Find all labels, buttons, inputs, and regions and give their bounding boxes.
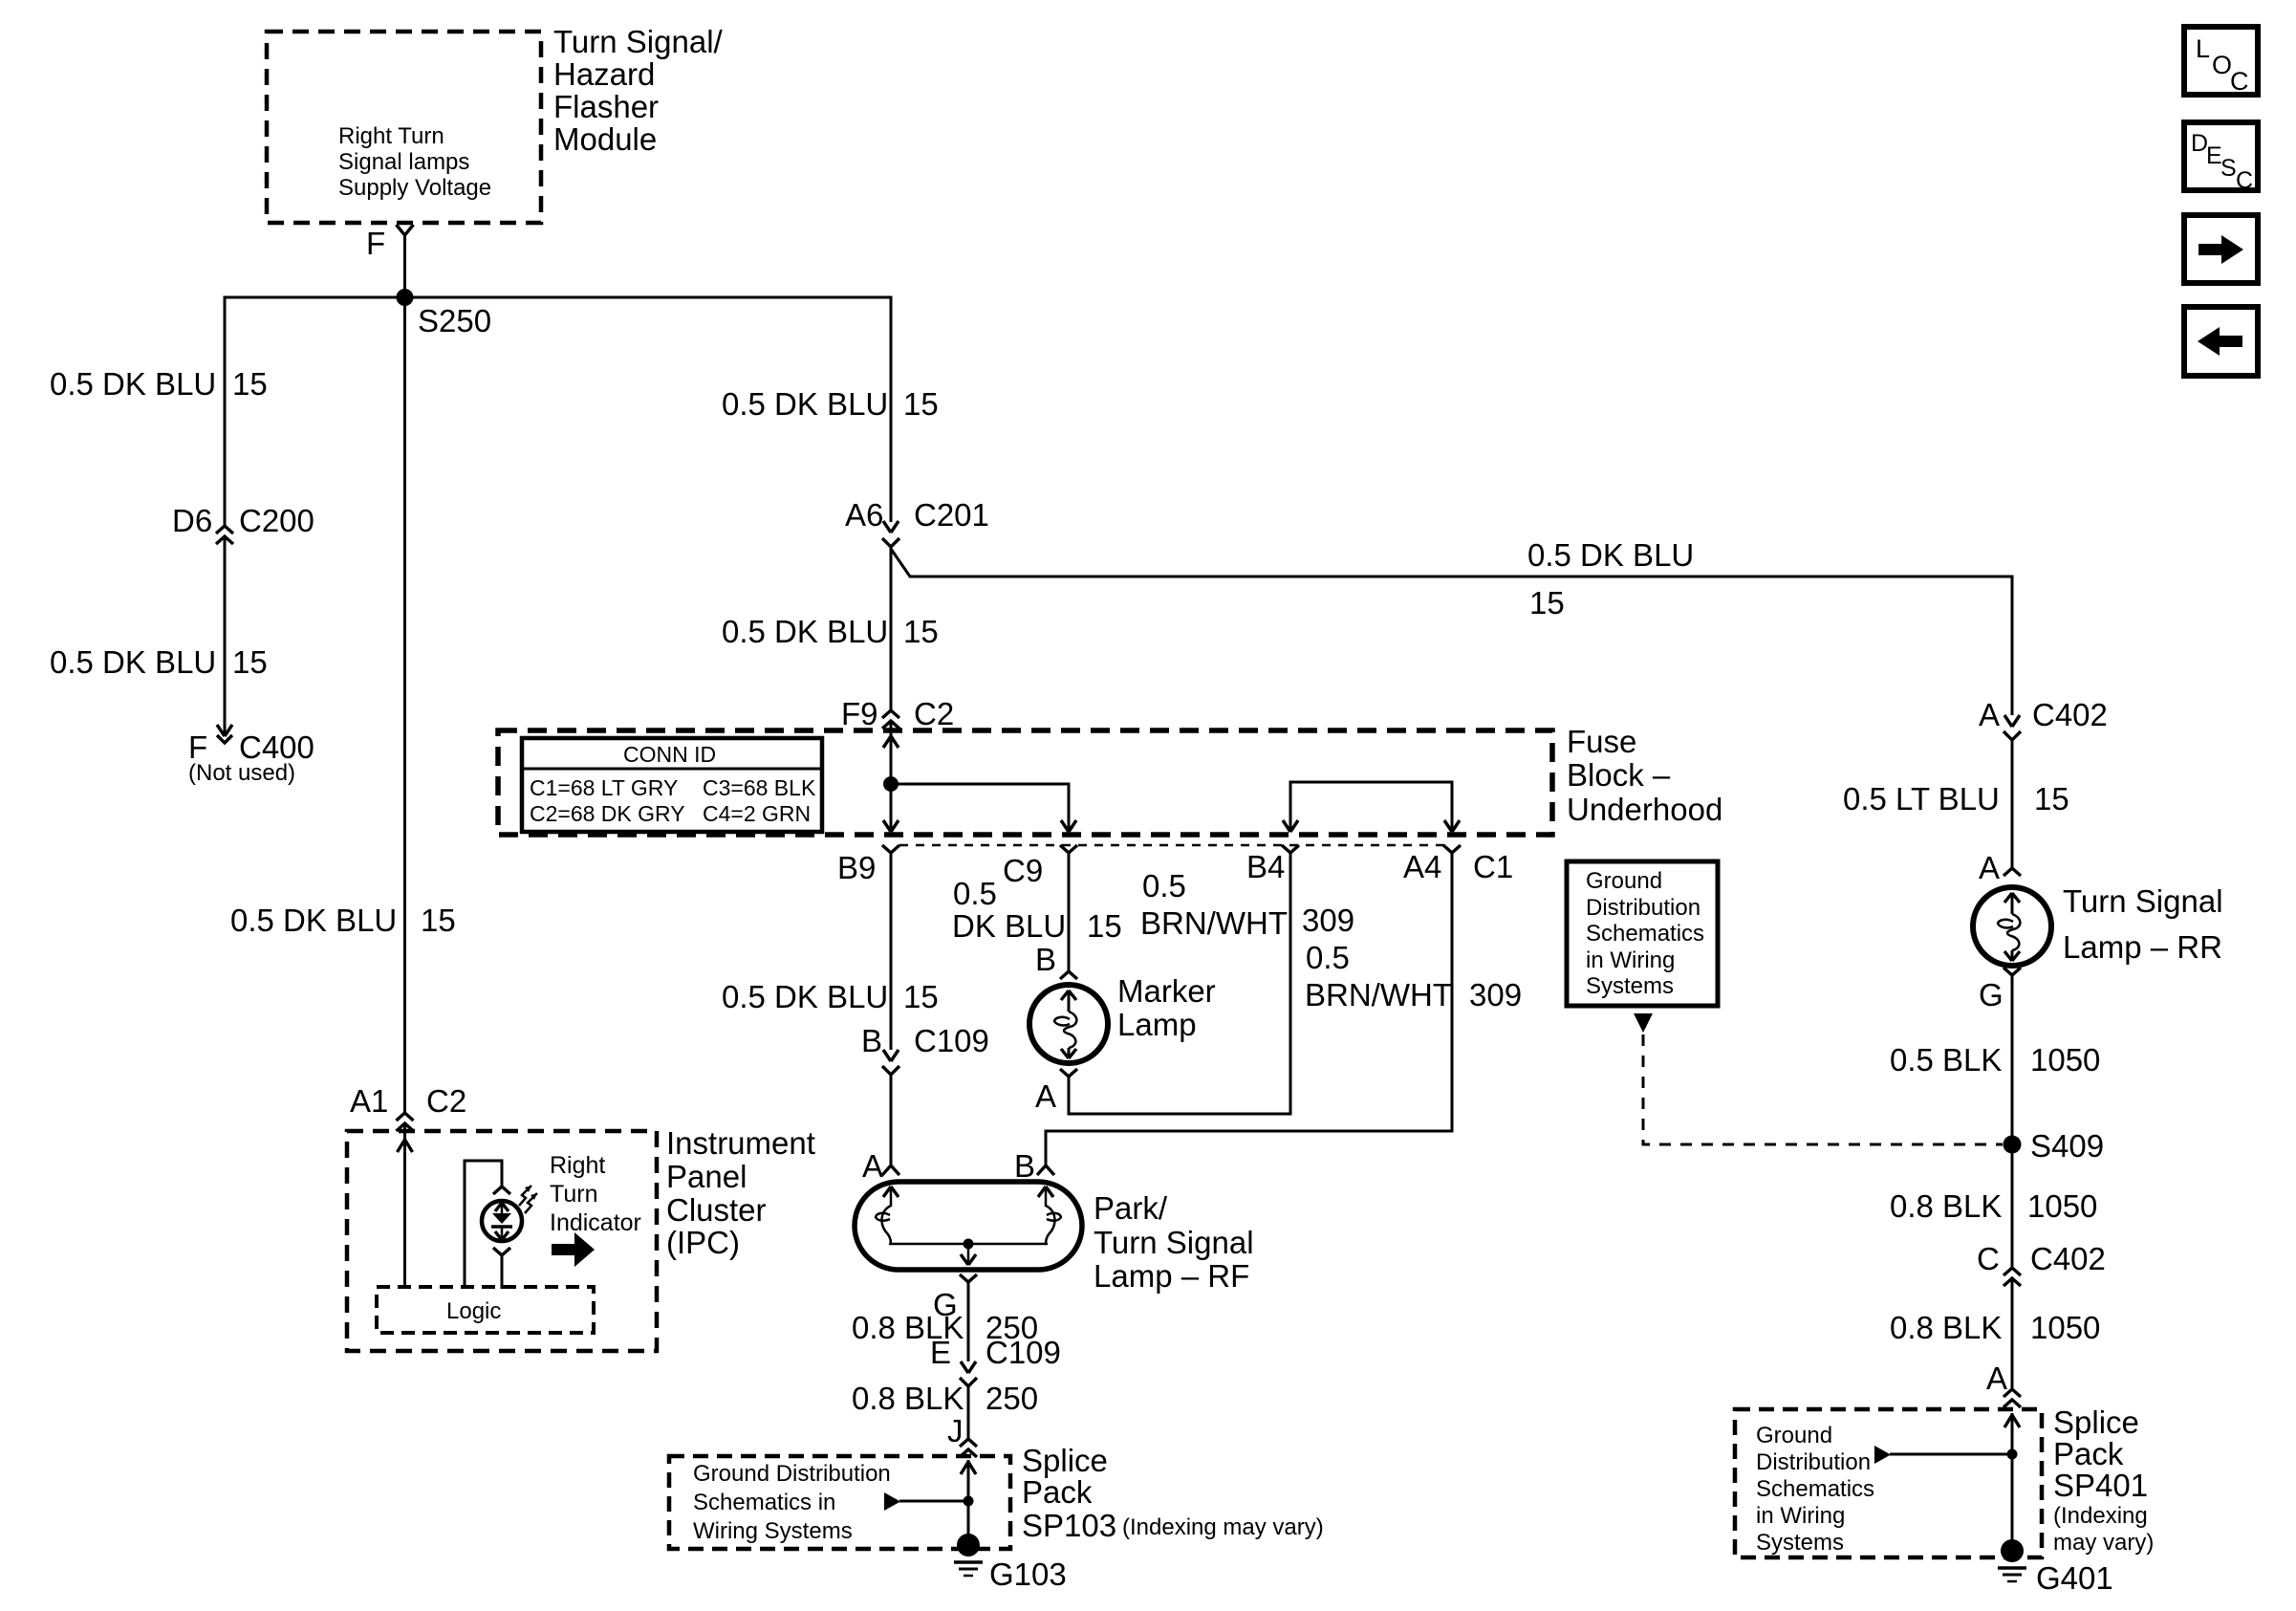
svg-text:C109: C109 [914,1023,989,1058]
svg-text:Ground Distribution: Ground Distribution [693,1461,891,1487]
svg-text:250: 250 [986,1381,1038,1416]
svg-text:Instrument: Instrument [666,1125,815,1161]
svg-text:Turn Signal: Turn Signal [2063,883,2223,919]
svg-text:Cluster: Cluster [666,1192,767,1228]
svg-text:1050: 1050 [2027,1188,2097,1224]
svg-text:0.5 DK BLU: 0.5 DK BLU [50,366,216,402]
label: module name [553,24,724,157]
fuse block - underhood (dashed box) [498,730,1552,835]
svg-text:Splice: Splice [2053,1404,2139,1440]
splice pack SP103 (dashed box) [669,1456,1010,1549]
wire: splice pack SP401 internal [1874,1413,2020,1549]
lamp E2 pin G cup [933,1274,977,1322]
svg-text:309: 309 [1302,903,1354,938]
svg-text:(Indexing: (Indexing [2053,1503,2148,1529]
svg-text:Hazard: Hazard [553,56,655,92]
svg-text:309: 309 [1469,977,1522,1012]
svg-text:15: 15 [1529,585,1565,620]
svg-text:C402: C402 [2030,1241,2106,1276]
wire: fuse A4/C1 down and across to park/turn lamp pin B (0.5 BRN/WHT 309) [1046,853,1452,1165]
wire: marker lamp A to fuse B4 (0.5 BRN/WHT 309) [1069,853,1290,1114]
nav box right arrow [2184,215,2258,283]
svg-text:E: E [930,1335,951,1370]
svg-text:Signal lamps: Signal lamps [338,149,469,175]
svg-text:L: L [2196,34,2210,63]
label: Fuse Block - Underhood [1567,724,1722,827]
svg-text:C1=68 LT GRY: C1=68 LT GRY [530,775,678,800]
wire: fuse block internal B4 to A4 bridge [1283,782,1460,832]
svg-text:C: C [2230,67,2249,96]
connector C201 pin A6 [845,497,989,547]
svg-text:C201: C201 [914,497,989,533]
label: 0.5 DK BLU 15 (left upper) [50,366,268,402]
svg-text:F: F [366,226,385,261]
label: 0.5 DK BLU 15 (B9 wire) [722,979,939,1014]
connector pin C9 [1003,845,1077,888]
svg-text:Distribution: Distribution [1586,895,1700,921]
svg-text:SP401: SP401 [2053,1468,2148,1503]
svg-text:Schematics: Schematics [1586,921,1704,947]
svg-text:Supply Voltage: Supply Voltage [338,175,491,201]
connector C109 pin E [930,1335,1061,1386]
svg-text:Marker: Marker [1117,973,1216,1009]
svg-text:G401: G401 [2036,1560,2113,1596]
svg-text:Ground: Ground [1586,868,1662,894]
svg-text:15: 15 [232,366,268,402]
svg-text:A: A [1979,697,2000,732]
lamp E3: Turn Signal Lamp - RR [1973,887,2051,966]
wire: IPC A1 down to logic [398,1123,413,1289]
svg-text:S250: S250 [418,303,491,338]
wire: C201 down to F9 [890,547,893,710]
wire: S250 down middle branch to C201 [890,296,893,523]
connector C2 pin A1 (IPC) [350,1083,466,1131]
svg-text:C2=68 DK GRY: C2=68 DK GRY [530,801,685,826]
LED D1: Right Turn Indicator [482,1186,537,1289]
svg-text:may vary): may vary) [2053,1530,2154,1556]
svg-text:Splice: Splice [1022,1443,1108,1478]
svg-text:(IPC): (IPC) [666,1225,740,1260]
svg-text:A: A [1979,850,2000,885]
connector C2 pin F9 (fuse block) [841,696,954,731]
svg-text:CONN ID: CONN ID [623,742,716,767]
svg-text:0.5 LT BLU: 0.5 LT BLU [1843,781,2000,816]
module U2: Instrument Panel Cluster (dashed box) [347,1131,657,1351]
svg-text:A: A [1986,1361,2007,1396]
svg-text:S: S [2220,155,2237,182]
label: Right Turn Indicator [550,1152,641,1236]
nav box DESC [2184,122,2258,194]
wire: splice pack SP103 internal [884,1460,976,1547]
wire: long branch down right side to C402 [2011,576,2014,716]
svg-text:C109: C109 [986,1335,1061,1370]
svg-text:0.5: 0.5 [953,876,997,911]
svg-text:Schematics in: Schematics in [693,1490,835,1515]
svg-text:Logic: Logic [446,1298,501,1324]
label: 0.5 BRN/WHT 309 (C1 wire) [1305,940,1522,1012]
label: Marker Lamp [1117,973,1216,1042]
svg-text:O: O [2212,51,2232,79]
wire: C402 C down to SP401 (0.8 BLK 1050) [2011,1278,2014,1389]
wire: branch to rear lamps (long horizontal 0.5 DK BLU 15) [891,537,2012,620]
wire: park/turn lamp G down to C109 (0.8 BLK 250) [967,1282,970,1361]
svg-text:A: A [862,1148,883,1184]
pin F of module [366,225,414,261]
svg-text:B9: B9 [837,850,876,885]
label: 0.8 BLK 1050 (lower) [1890,1310,2100,1345]
ground G401 [1998,1539,2113,1596]
svg-text:(Not used): (Not used) [188,760,295,786]
svg-text:C: C [2236,167,2253,194]
label: 0.8 BLK 250 (upper) [852,1310,1038,1345]
svg-text:SP103: SP103 [1022,1508,1116,1543]
wire: C109 E down to splice pack (0.8 BLK 250) [967,1386,970,1439]
svg-text:15: 15 [232,644,268,680]
svg-text:C402: C402 [2032,697,2108,732]
svg-text:Flasher: Flasher [553,89,659,124]
nav box LOC [2184,27,2258,96]
svg-text:A6: A6 [845,497,883,533]
svg-text:Park/: Park/ [1094,1190,1168,1226]
connector C400 pin F (not used) [188,725,314,786]
lamp E2: Park/Turn Signal Lamp - RF pins A and B [862,1148,1054,1184]
svg-text:15: 15 [1087,908,1122,944]
label: 0.5 LT BLU 15 [1843,781,2069,816]
svg-text:C9: C9 [1003,853,1043,888]
node: fuse internal junction [883,776,899,792]
logic block (dashed box) [377,1287,594,1333]
connector C200 pin D6 [172,503,314,544]
svg-text:Lamp – RR: Lamp – RR [2063,929,2222,965]
svg-text:0.5 DK BLU: 0.5 DK BLU [722,979,888,1014]
svg-text:Systems: Systems [1756,1530,1844,1556]
svg-text:15: 15 [2034,781,2069,816]
svg-text:0.8 BLK: 0.8 BLK [1890,1188,2002,1224]
svg-text:Pack: Pack [1022,1474,1093,1510]
svg-text:G: G [1979,977,2004,1012]
lamp E1: Marker Lamp [1029,985,1108,1063]
svg-text:0.5 DK BLU: 0.5 DK BLU [230,903,397,938]
svg-text:C2: C2 [914,696,954,731]
svg-text:D6: D6 [172,503,212,538]
wire: C109 down to park/turn lamp pin A [890,1075,893,1165]
wire: fuse block internal F9 to B9 [883,730,899,832]
svg-text:B: B [1035,942,1056,977]
label: 0.5 DK BLU 15 (left lower) [50,644,268,680]
svg-text:in Wiring: in Wiring [1586,947,1675,973]
svg-text:0.5 BLK: 0.5 BLK [1890,1042,2002,1078]
svg-text:BRN/WHT: BRN/WHT [1140,905,1288,941]
svg-text:Lamp – RF: Lamp – RF [1094,1258,1249,1294]
wire: left branch down to C200 [224,296,227,526]
connector C109 pin B [861,1023,989,1075]
wire: C9 down to marker lamp (0.5 DK BLU 15) [1068,853,1071,971]
wire: fuse block internal junction to C9 [891,784,1076,832]
svg-text:G103: G103 [989,1557,1067,1592]
svg-text:Pack: Pack [2053,1436,2124,1471]
label: Park/Turn Signal Lamp - RF [1094,1190,1254,1294]
svg-text:0.8 BLK: 0.8 BLK [1890,1310,2002,1345]
label: 0.5 DK BLU 15 (C9 wire) [952,876,1122,944]
svg-text:in Wiring: in Wiring [1756,1503,1845,1529]
svg-text:0.5: 0.5 [1142,868,1186,903]
icon: black right arrow (IPC) [552,1232,595,1267]
svg-text:A4: A4 [1403,849,1441,884]
svg-text:0.5 DK BLU: 0.5 DK BLU [722,614,888,649]
svg-text:J: J [947,1413,964,1448]
label: 0.8 BLK 250 (lower) [852,1381,1038,1416]
svg-text:Ground: Ground [1756,1423,1832,1448]
lamp E2: Park/Turn Signal Lamp - RF body [855,1182,1082,1270]
wire: C200 down to C400 (0.5 DK BLU 15) [224,536,227,736]
svg-text:Turn Signal: Turn Signal [1094,1225,1254,1260]
svg-text:B4: B4 [1246,849,1285,884]
svg-text:Turn Signal/: Turn Signal/ [553,24,724,59]
wire: lamp RR G down to C402 (0.5 BLK 1050) [2011,975,2014,1268]
module U1: Turn Signal/Hazard Flasher Module (dashed box) [267,32,541,223]
svg-text:C1: C1 [1473,849,1513,884]
svg-text:B: B [1014,1148,1035,1184]
svg-text:0.5 DK BLU: 0.5 DK BLU [1527,537,1694,573]
wire: LED loop inside IPC [465,1161,502,1289]
svg-text:C4=2 GRN: C4=2 GRN [703,801,811,826]
svg-text:C3=68 BLK: C3=68 BLK [703,775,816,800]
label: 0.8 BLK 1050 (upper) [1890,1188,2097,1224]
svg-text:Underhood: Underhood [1567,792,1722,827]
label: 0.5 DK BLU 15 (middle upper) [722,386,939,422]
svg-text:0.5 DK BLU: 0.5 DK BLU [50,644,216,680]
svg-text:Turn: Turn [550,1181,597,1208]
svg-text:A1: A1 [350,1083,388,1119]
svg-text:C2: C2 [426,1083,466,1119]
svg-text:Block –: Block – [1567,757,1671,793]
connector C402 pin C [1977,1241,2106,1286]
svg-text:0.8 BLK: 0.8 BLK [852,1381,964,1416]
svg-text:(Indexing may vary): (Indexing may vary) [1122,1514,1324,1540]
svg-text:A: A [1035,1078,1056,1114]
connector pin A4 / C1 [1403,845,1513,884]
svg-text:Lamp: Lamp [1117,1007,1197,1042]
connector pin B9 [837,845,899,885]
svg-text:0.5: 0.5 [1306,940,1350,975]
svg-text:Schematics: Schematics [1756,1476,1874,1502]
lamp E3 pin A cup [1979,850,2021,885]
label: Turn Signal Lamp - RR [2063,883,2223,965]
nav box left arrow [2184,307,2258,376]
reference arrow to S409 (dashed) [1634,1013,2003,1144]
wire: C402 down to lamp RR (0.5 LT BLU 15) [2011,740,2014,868]
svg-text:1050: 1050 [2030,1042,2100,1078]
svg-text:Fuse: Fuse [1567,724,1636,759]
svg-text:15: 15 [903,979,939,1014]
lamp: Marker Lamp pin A cup [1035,1069,1077,1114]
label: Splice Pack SP401 [2053,1404,2154,1556]
label: 0.5 DK BLU 15 (IPC wire) [230,903,456,938]
svg-text:15: 15 [421,903,456,938]
label: 0.5 BLK 1050 [1890,1042,2100,1078]
svg-text:Right: Right [550,1152,605,1179]
label: Instrument Panel Cluster (IPC) [666,1125,815,1260]
lamp: Marker Lamp pin B cup [1035,942,1077,979]
svg-text:Distribution: Distribution [1756,1449,1871,1475]
CONN ID table [522,738,822,832]
connector face dashed line below fuse block [899,844,1445,847]
label: Splice Pack SP103 [1022,1443,1324,1543]
svg-text:DK BLU: DK BLU [952,908,1066,944]
svg-text:Module: Module [553,121,657,157]
svg-text:S409: S409 [2030,1128,2104,1164]
svg-text:15: 15 [903,614,939,649]
connector C402 pin A [1979,697,2108,740]
svg-text:Wiring Systems: Wiring Systems [693,1518,853,1544]
svg-text:15: 15 [903,386,939,422]
svg-text:C: C [1977,1241,2000,1276]
label: 0.5 BRN/WHT 309 (B4 wire) [1140,868,1354,941]
splice S409 [2004,1128,2105,1164]
ground distribution reference box (solid) [1567,861,1718,1006]
svg-text:B: B [861,1023,882,1058]
label: 0.5 DK BLU 15 (middle lower) [722,614,939,649]
svg-text:0.5 DK BLU: 0.5 DK BLU [722,386,888,422]
svg-text:1050: 1050 [2030,1310,2100,1345]
wire: B9 down to C109 (0.5 DK BLU 15) [890,853,893,1050]
connector pin A at splice pack SP401 [1986,1361,2021,1407]
splice S250 [225,289,891,338]
wire: module F down to IPC (0.5 DK BLU 15) [403,235,406,1112]
svg-text:Systems: Systems [1586,973,1674,999]
svg-text:Right Turn: Right Turn [338,123,444,149]
connector pin B4 [1246,845,1299,884]
svg-text:Indicator: Indicator [550,1209,641,1236]
ground G103 [954,1534,1067,1592]
lamp E3 pin G cup [1979,968,2021,1012]
svg-text:BRN/WHT: BRN/WHT [1305,977,1452,1012]
connector pin J at splice pack SP103 [947,1413,977,1457]
svg-text:Panel: Panel [666,1159,747,1194]
splice pack SP401 (dashed box) [1735,1409,2042,1557]
svg-text:C200: C200 [239,503,314,538]
svg-text:F9: F9 [841,696,878,731]
